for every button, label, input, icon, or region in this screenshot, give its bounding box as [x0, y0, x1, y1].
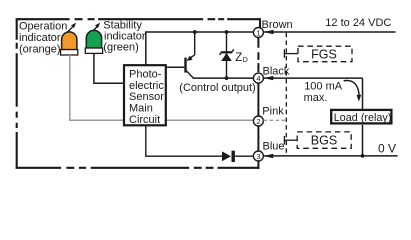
wire: output (black) from collector to terminal 4: [193, 77, 254, 79]
svg-text:Stability: Stability: [103, 19, 142, 31]
LED indicator (orange): [61, 32, 78, 55]
sensor enclosure top border: [16, 18, 261, 20]
svg-text:Circuit: Circuit: [129, 114, 160, 126]
svg-text:indicator: indicator: [19, 32, 61, 44]
label: Operation indicator (orange): [19, 20, 67, 55]
FGS box: [298, 46, 352, 62]
wire: load to 0 V line: [362, 125, 364, 156]
wire: pink stub (dashed gray) from terminal 2 to select line: [264, 119, 287, 121]
wire: orange LED lead (gray) down and right to terminal 2: [70, 55, 254, 120]
diode D1 (reverse protection): [222, 151, 233, 162]
LED indicator (green): [85, 30, 102, 53]
svg-text:(green): (green): [103, 42, 138, 54]
zener diode ZD vertical wire: [226, 32, 228, 78]
LED emission arrow (green indicator): [91, 23, 101, 34]
svg-text:(orange): (orange): [19, 43, 61, 55]
svg-text:electric: electric: [129, 80, 164, 92]
sensor enclosure right border above terminal 1: [259, 19, 261, 28]
svg-text:Pink: Pink: [262, 106, 284, 118]
svg-text:max.: max.: [304, 92, 328, 104]
wire: output (black, external) from terminal 4 right then down to load: [264, 76, 363, 110]
svg-text:3: 3: [256, 152, 260, 161]
label 100 mA max.: [304, 80, 343, 104]
wire: internal +V (brown) from box top up and right to terminal 1: [146, 32, 254, 65]
svg-text:Blue: Blue: [263, 140, 285, 152]
svg-text:FGS: FGS: [311, 47, 337, 61]
terminal 4 (Black): [253, 73, 263, 83]
label Black: [263, 65, 290, 77]
wire: +V supply line (brown, external) with arrow into terminal 1: [264, 30, 396, 34]
label 12 to 24 VDC: [325, 17, 391, 29]
LED emission arrow (orange indicator): [66, 23, 76, 34]
wire: 0 V (blue, internal) from box bottom down and right to diode: [146, 125, 223, 156]
sensor enclosure right border between terminal 2 and 3: [257, 126, 259, 152]
wire: green LED lead down and right into main circuit box: [94, 53, 124, 83]
transistor Q1 (PNP output) base bar: [184, 58, 186, 73]
BGS connection tick: [284, 136, 297, 145]
svg-text:Load (relay): Load (relay): [334, 112, 392, 124]
terminal 1 (Brown): [253, 28, 263, 38]
label Blue: [263, 140, 285, 152]
sensor enclosure right border between terminal 1 and 4 (dashed): [257, 38, 259, 73]
svg-text:1: 1: [256, 28, 260, 37]
label: Stability indicator (green): [103, 19, 146, 53]
svg-text:BGS: BGS: [311, 133, 337, 147]
wire: 0 V line (blue, external) with arrow into terminal 3: [264, 154, 398, 158]
junction dot: load wire on 0 V line: [361, 154, 365, 158]
terminal 2 (Pink): [253, 116, 263, 126]
photo-electric sensor main circuit box U1: [124, 65, 166, 126]
svg-text:Operation: Operation: [19, 20, 67, 32]
svg-text:2: 2: [256, 117, 260, 126]
BGS box: [297, 132, 351, 148]
svg-text:Brown: Brown: [262, 19, 293, 31]
svg-text:4: 4: [256, 74, 260, 83]
transistor Q1 collector lead (to output line): [187, 71, 194, 78]
label (Control output): [179, 82, 255, 94]
sensor enclosure right border below terminal 3: [257, 161, 259, 169]
load (relay) box: [331, 110, 391, 124]
sensor enclosure bottom border: [16, 167, 260, 169]
sensor enclosure right border between terminal 4 and 2: [257, 83, 259, 116]
label Pink: [262, 106, 284, 118]
wire: diode to terminal 3: [235, 155, 254, 157]
svg-text:100 mA: 100 mA: [304, 80, 343, 92]
svg-text:0 V: 0 V: [378, 142, 396, 156]
label ZD: [235, 52, 248, 64]
svg-text:Z: Z: [235, 52, 242, 64]
transistor Q1 base lead from main circuit: [167, 66, 185, 68]
svg-text:12 to 24 VDC: 12 to 24 VDC: [325, 17, 391, 29]
svg-text:D: D: [243, 57, 248, 64]
terminal 3 (Blue): [253, 151, 263, 161]
zener diode ZD symbol: [220, 49, 234, 61]
sensor enclosure left border: [16, 19, 18, 168]
label Brown: [262, 19, 293, 31]
svg-text:Sensor: Sensor: [129, 91, 164, 103]
svg-text:(Control output): (Control output): [179, 82, 255, 94]
svg-text:Main: Main: [129, 103, 153, 115]
transistor Q1 emitter lead with arrow (to +V line): [187, 32, 195, 61]
current direction curved arrow: [344, 81, 362, 102]
FGS connection tick: [284, 49, 298, 57]
junction dot: zener top on +V line: [225, 30, 229, 34]
label 0 V: [378, 142, 396, 156]
dashed select line (FGS/BGS) vertical: [285, 33, 287, 156]
junction dot: zener bottom on output line: [225, 76, 229, 80]
svg-text:Photo-: Photo-: [129, 69, 162, 81]
junction dot: emitter on +V line: [193, 30, 197, 34]
